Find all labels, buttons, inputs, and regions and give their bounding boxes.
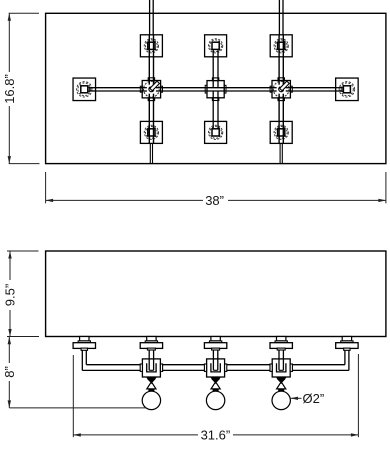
svg-text:38”: 38” (205, 193, 224, 208)
svg-text:9.5”: 9.5” (3, 284, 18, 306)
svg-text:8”: 8” (2, 366, 17, 378)
svg-text:16.8”: 16.8” (2, 74, 17, 104)
svg-text:Ø2”: Ø2” (303, 391, 325, 406)
svg-text:31.6”: 31.6” (201, 428, 231, 443)
